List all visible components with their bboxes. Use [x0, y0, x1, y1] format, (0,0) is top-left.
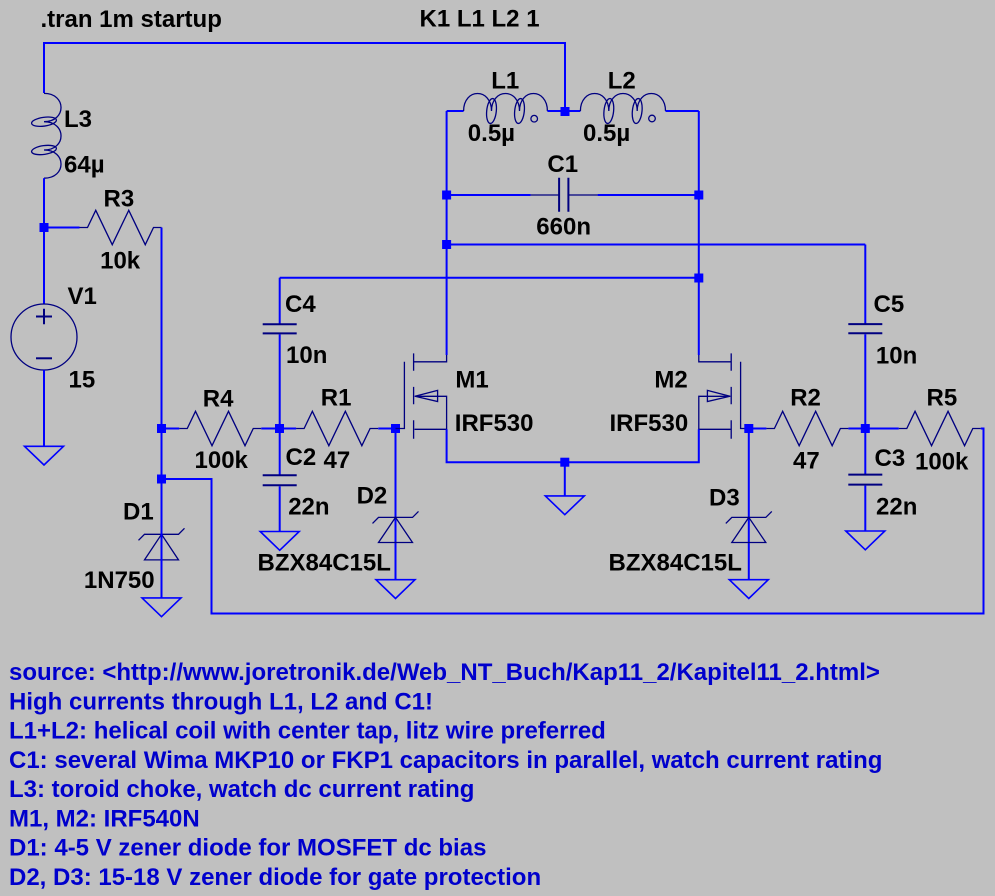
svg-text:R3: R3: [104, 186, 135, 213]
ground below D1: [142, 598, 181, 617]
ground below V1: [25, 446, 64, 465]
wire L1 left lead: [447, 110, 464, 112]
wire ground stem at source bus: [564, 462, 566, 495]
note line 7: [9, 835, 486, 862]
wire C3 top lead: [864, 433, 866, 474]
svg-text:C2: C2: [286, 444, 317, 471]
svg-text:BZX84C15L: BZX84C15L: [609, 550, 742, 577]
label D3: [709, 485, 740, 512]
svg-text:M1, M2: IRF540N: M1, M2: IRF540N: [9, 806, 200, 833]
svg-text:C1: C1: [547, 151, 578, 178]
wire R5 left lead: [865, 428, 899, 430]
svg-text:10n: 10n: [876, 342, 917, 369]
svg-text:BZX84C15L: BZX84C15L: [258, 550, 391, 577]
resistor R5: [899, 411, 981, 445]
svg-text:D2, D3: 15-18 V zener diode fo: D2, D3: 15-18 V zener diode for gate pro…: [9, 864, 541, 891]
zener diode D1: [139, 528, 185, 560]
svg-text:.tran 1m startup: .tran 1m startup: [41, 6, 222, 33]
junction node M2 gate / D3: [744, 424, 753, 433]
note line 5: [9, 776, 474, 803]
svg-text:10k: 10k: [100, 247, 141, 274]
svg-text:22n: 22n: [288, 494, 329, 521]
label V1: [68, 283, 97, 310]
inductor L3: [31, 93, 61, 178]
junction node D1 top: [157, 475, 166, 484]
label D2 value BZX84C15L: [258, 550, 391, 577]
svg-text:D1: D1: [123, 499, 154, 526]
note line 2: [9, 688, 433, 715]
spice directive .tran 1m startup: [41, 6, 222, 33]
mosfet M2: [699, 353, 749, 438]
wire R3 left lead: [44, 227, 80, 229]
wire D2 top lead: [395, 433, 397, 579]
label R1: [321, 385, 352, 412]
resistor R4: [179, 411, 261, 445]
junction node L1/L2 center tap: [561, 107, 570, 116]
wire top rail from L3 top to L1/L2 center tap: [44, 43, 565, 108]
note line 6: [9, 806, 200, 833]
wire V1 bottom to ground: [43, 370, 45, 446]
wire R2 left lead: [749, 428, 767, 430]
label C2: [286, 444, 317, 471]
label R2 value 47: [793, 448, 820, 475]
svg-text:10n: 10n: [286, 342, 327, 369]
label L2: [608, 68, 636, 95]
wire M1 drain column (L1 left end down to M1 drain): [446, 111, 448, 355]
note line 8: [9, 864, 541, 891]
wire L3 bottom to V1 top: [43, 178, 45, 304]
capacitor C3: [848, 475, 882, 485]
wire C4 top from row3: [279, 278, 281, 324]
label C5 value 10n: [876, 342, 917, 369]
ground below D3: [729, 580, 768, 599]
wire row2 M1 drain column to C5: [447, 244, 866, 246]
label R3: [104, 186, 135, 213]
label R5: [927, 384, 958, 411]
junction node source bus center: [560, 458, 569, 467]
label D1 value 1N750: [84, 567, 155, 594]
label M2 value IRF530: [610, 410, 689, 437]
svg-text:0.5µ: 0.5µ: [583, 120, 630, 147]
label M2: [654, 367, 687, 394]
wire R1 right lead: [378, 428, 395, 430]
svg-text:64µ: 64µ: [64, 152, 105, 179]
svg-text:D1: 4-5 V zener diode for MOSF: D1: 4-5 V zener diode for MOSFET dc bias: [9, 835, 486, 862]
capacitor C2: [263, 475, 297, 485]
junction node M1 gate / D2: [391, 424, 400, 433]
label R4 value 100k: [195, 447, 249, 474]
resistor R1: [296, 411, 378, 445]
label R1 value 47: [324, 447, 351, 474]
svg-text:1N750: 1N750: [84, 567, 155, 594]
svg-text:100k: 100k: [195, 447, 249, 474]
svg-text:D3: D3: [709, 485, 740, 512]
zener diode D3: [726, 511, 772, 542]
capacitor C1: [531, 178, 598, 212]
svg-text:R2: R2: [790, 385, 821, 412]
label C4 value 10n: [286, 342, 327, 369]
wire C5 top from row2: [864, 245, 866, 324]
label C1 value 660n: [536, 214, 591, 241]
junction node L3/R3/V1: [40, 223, 49, 232]
svg-text:High currents through L1, L2 a: High currents through L1, L2 and C1!: [9, 688, 433, 715]
capacitor C4: [263, 324, 297, 333]
resistor R2: [766, 411, 848, 445]
zener diode D2: [373, 511, 419, 542]
svg-text:0.5µ: 0.5µ: [468, 120, 515, 147]
label C3 value 22n: [876, 494, 917, 521]
label L3: [64, 106, 92, 133]
junction node R2/R5/C3/C5: [861, 424, 870, 433]
svg-text:D2: D2: [357, 483, 388, 510]
junction node row3 at M2 drain column: [694, 274, 703, 283]
wire R1 left lead: [280, 428, 297, 430]
svg-text:C3: C3: [875, 445, 906, 472]
label R4: [203, 386, 234, 413]
label L2 value 0.5u: [583, 120, 630, 147]
resistor R3: [80, 210, 162, 244]
wire feedback loop R5 right down across bottom to D1 node: [162, 429, 984, 614]
wire C4 bottom to gate node: [279, 334, 281, 424]
svg-text:V1: V1: [68, 283, 97, 310]
label R5 value 100k: [915, 449, 969, 476]
wire D3 top lead: [748, 433, 750, 579]
wire C1 left lead: [447, 194, 531, 196]
voltage source V1: [11, 304, 77, 370]
label L1: [491, 68, 519, 95]
svg-text:R1: R1: [321, 385, 352, 412]
label C1: [547, 151, 578, 178]
note line 4: [9, 747, 882, 774]
note line 3: [9, 718, 606, 745]
svg-text:M2: M2: [654, 367, 687, 394]
junction node C1 right: [694, 191, 703, 200]
svg-text:C1: several Wima MKP10 or FKP1: C1: several Wima MKP10 or FKP1 capacitor…: [9, 747, 882, 774]
svg-text:L1: L1: [491, 68, 519, 95]
mosfet M1: [396, 353, 447, 438]
svg-text:L2: L2: [608, 68, 636, 95]
label D2: [357, 483, 388, 510]
svg-text:C4: C4: [285, 291, 316, 318]
ground below source bus: [545, 496, 584, 515]
ground below C3: [846, 531, 885, 550]
wire C3 bottom lead: [864, 486, 866, 531]
svg-text:IRF530: IRF530: [610, 410, 689, 437]
wire D1 lead: [161, 479, 163, 598]
inductor L2: [580, 94, 665, 124]
svg-text:L3: toroid choke, watch dc cur: L3: toroid choke, watch dc current ratin…: [9, 776, 474, 803]
wire source bus M1 to M2: [447, 429, 699, 462]
label R2: [790, 385, 821, 412]
ground below D2: [376, 580, 415, 599]
wire R2 right lead: [848, 428, 865, 430]
label D1: [123, 499, 154, 526]
svg-text:K1 L1 L2 1: K1 L1 L2 1: [420, 6, 540, 33]
wire C2 top lead: [279, 433, 281, 475]
wire R4 left lead: [162, 428, 180, 430]
wire L2 left lead: [565, 110, 580, 112]
wire C1 right lead: [598, 194, 699, 196]
svg-text:47: 47: [793, 448, 820, 475]
junction node row2 at M1 drain column: [442, 240, 451, 249]
svg-text:M1: M1: [455, 367, 488, 394]
label C4: [285, 291, 316, 318]
wire L1 right lead to center tap: [547, 110, 565, 112]
label L3 value 64u: [64, 152, 105, 179]
junction node C4/C2/R4/R1: [275, 424, 284, 433]
spice directive K1 L1 L2 1: [420, 6, 540, 33]
svg-text:47: 47: [324, 447, 351, 474]
label V1 value 15: [69, 367, 96, 394]
note line 1 source url: [9, 659, 880, 686]
label M1 value IRF530: [455, 410, 534, 437]
svg-text:15: 15: [69, 367, 96, 394]
wire C2 bottom lead: [279, 486, 281, 531]
svg-text:L3: L3: [64, 106, 92, 133]
label C2 value 22n: [288, 494, 329, 521]
wire R4 right lead: [261, 428, 279, 430]
label L1 value 0.5u: [468, 120, 515, 147]
ground below C2: [260, 532, 299, 551]
svg-text:C5: C5: [874, 291, 905, 318]
label D3 value BZX84C15L: [609, 550, 742, 577]
svg-text:660n: 660n: [536, 214, 591, 241]
svg-text:R4: R4: [203, 386, 234, 413]
svg-text:IRF530: IRF530: [455, 410, 534, 437]
svg-text:100k: 100k: [915, 449, 969, 476]
capacitor C5: [848, 324, 882, 333]
label C5: [874, 291, 905, 318]
junction node R4 left: [157, 424, 166, 433]
wire row3 C4 to M2 drain column: [280, 277, 699, 279]
label R3 value 10k: [100, 247, 141, 274]
label M1: [455, 367, 488, 394]
svg-text:L1+L2: helical coil with cente: L1+L2: helical coil with center tap, lit…: [9, 718, 606, 745]
wire M2 drain column (L2 right end down to M2 drain): [698, 111, 700, 355]
svg-text:source: <http://www.joretronik: source: <http://www.joretronik.de/Web_NT…: [9, 659, 880, 686]
label C3: [875, 445, 906, 472]
wire R3 right end down to R4/D1 column: [161, 228, 163, 480]
inductor L1: [464, 94, 548, 124]
svg-text:22n: 22n: [876, 494, 917, 521]
wire C5 bottom lead: [864, 334, 866, 424]
junction node C1 left: [442, 191, 451, 200]
wire L2 right lead: [666, 110, 699, 112]
svg-text:R5: R5: [927, 384, 958, 411]
